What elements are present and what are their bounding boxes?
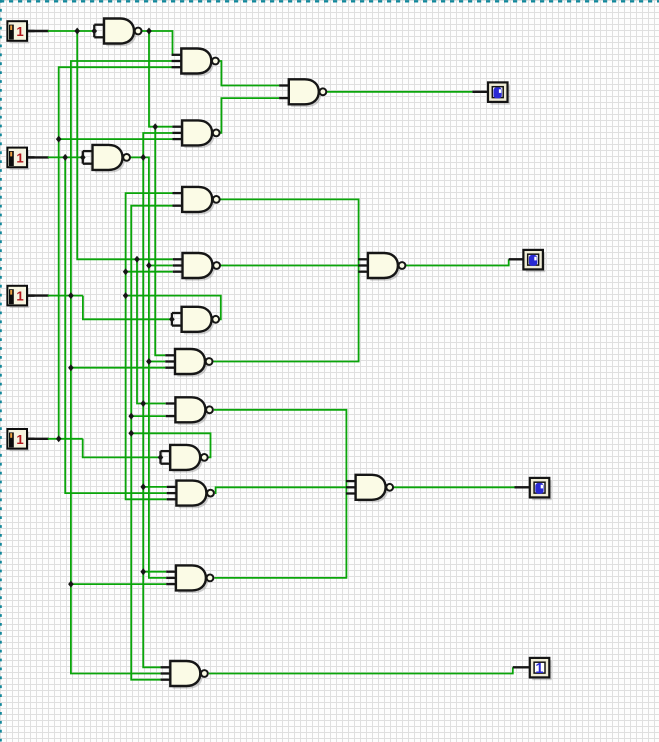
junction U9 rail / U7 input C	[123, 268, 129, 275]
wire U14 output to output pin O3	[394, 486, 530, 488]
wire I4 rail branch to U4 input C	[59, 138, 173, 140]
junction U1 output / rail to U4	[146, 28, 152, 35]
wire I3 to U9 input	[83, 296, 172, 320]
wire I3 pin lead	[27, 294, 83, 296]
junction U1 tied inputs	[92, 28, 98, 35]
wire U16 output to output pin O4	[209, 667, 530, 673]
wire I3 rail up to U2 input B	[71, 61, 172, 296]
wire U9 output rail branch to U7 input C	[126, 271, 173, 273]
wire I4 rail up to U2 input C	[59, 67, 172, 439]
wire I3 rail branch to U10 input C	[71, 367, 165, 369]
junction U5 rail / U11 input A	[140, 400, 146, 407]
wire U6 output down to U8 and U10 output up to U8	[214, 199, 359, 361]
input pin I4 (value 1)	[7, 429, 34, 451]
wire I3 rail branch to U15 input C	[71, 583, 166, 585]
wire rail to U15 input A	[143, 571, 166, 573]
wire U12 output loop up	[131, 433, 210, 457]
NAND gate U11 (2-input)	[166, 397, 213, 425]
input pin I3 (value 1)	[7, 286, 34, 308]
wire U12 output rail up to U6 input B	[131, 206, 172, 434]
junction U12 output loop / rail	[128, 430, 134, 437]
wire I2 to gate U5 input	[27, 156, 83, 158]
junction U5 rail / U7 input B	[146, 262, 152, 269]
NAND gate U14 (3-input)	[346, 475, 393, 503]
junction I3 rail / U10 input C	[68, 364, 74, 371]
NAND gate U10 (3-input)	[165, 349, 212, 377]
NAND gate U7 (3-input)	[173, 253, 220, 281]
wire I4 to U12 input	[27, 439, 161, 458]
wire rail junction to U11 input A	[137, 259, 166, 403]
svg-text:1: 1	[16, 432, 23, 447]
wire rail to U13 input A	[143, 486, 167, 488]
wire U1 output to U2 input A	[142, 31, 174, 55]
input pin I2 (value 1)	[7, 148, 34, 170]
wire U12 output rail branch to U11 input B	[131, 415, 166, 417]
junction I2 wire / rail to U13	[62, 154, 68, 161]
NAND gate U4 (3-input)	[172, 120, 219, 148]
wire U4 output to U3 input B	[220, 98, 279, 133]
junction U5 output / rail down	[140, 154, 146, 161]
junction I1 wire / rail to U7	[74, 28, 80, 35]
output pin O4 (value 1)	[530, 658, 552, 680]
wire I1 rail down to U7 input A	[77, 31, 173, 259]
NAND gate U2 (3-input)	[172, 49, 219, 77]
junction I4 rail / U4 input C	[56, 136, 62, 143]
junction U5 rail / U10 input B	[146, 358, 152, 365]
junction I1 rail / rail to U11	[134, 256, 140, 263]
junction U5 rail / U15 input A	[140, 568, 146, 575]
wire U9 output loop up	[126, 296, 221, 320]
NAND gate U16 (3-input)	[161, 661, 208, 689]
wire U5 output rail down to U16 input A	[143, 157, 160, 667]
NAND gate U12 (inverter, I4)	[161, 445, 208, 473]
junction I3 wire / rail up	[68, 292, 74, 299]
junction I4 wire / rail up	[56, 435, 62, 442]
output pin O2 (value 0)	[523, 250, 545, 272]
NAND gate U8 (3-input)	[358, 253, 405, 281]
wire U8 output to output pin O2	[406, 259, 523, 265]
junction I3 rail / U15 input C	[68, 581, 74, 588]
wire I2 rail down to U13 input B	[65, 157, 167, 493]
NAND gate U5 (inverter, I2)	[83, 145, 130, 173]
NAND gate U1 (inverter, I1)	[94, 19, 141, 47]
svg-text:1: 1	[16, 24, 23, 39]
wire U12 output rail down to U16 input C	[131, 433, 160, 679]
wire U1 output rail down to U10 input A	[155, 127, 165, 356]
wire I1 to gate U1 input	[27, 30, 94, 32]
svg-text:1: 1	[535, 661, 543, 677]
wire U9 output rail down to U13 input C	[126, 296, 167, 500]
junction U9 output / rail	[123, 292, 129, 299]
svg-text:1: 1	[16, 289, 23, 304]
wire U7 output to U8 input B	[221, 265, 359, 267]
junction U4 input A / rail to U10	[152, 123, 158, 130]
input pin I1 (value 1)	[7, 21, 34, 43]
output pin O1 (value 0)	[488, 82, 510, 104]
NAND gate U3 (2-input)	[279, 79, 326, 107]
wire U9 output rail up to U6 input A	[126, 193, 173, 296]
wire U11 output down to U14 and U15 output up to U14	[214, 410, 347, 578]
wire rail to U10 input B	[149, 361, 165, 363]
wire U13 output to U14 input B	[215, 487, 346, 493]
wire U5 output branch rail down to U15 input B	[143, 157, 166, 578]
wire rail to U7 input B	[149, 265, 173, 267]
output pin O3 (value 0)	[530, 478, 552, 500]
wire U1 output rail to U4 input A	[149, 31, 172, 127]
wire U3 output to output pin O1	[327, 91, 488, 93]
junction U12 tied inputs	[158, 454, 164, 461]
junction U5 rail / U13 input A	[140, 483, 146, 490]
NAND gate U13 (3-input)	[167, 481, 214, 509]
junction U12 rail / U11 input B	[128, 413, 134, 420]
NAND gate U15 (3-input)	[166, 565, 213, 593]
NAND gate U6 (2-input)	[173, 187, 220, 215]
wire U2 output to U3 input A	[219, 61, 279, 86]
wire U5 output rail up to U4 input B	[143, 133, 172, 157]
junction U9 tied inputs	[169, 316, 175, 323]
wire U5 output to U4 input B	[131, 156, 144, 158]
NAND gate U9 (inverter, I3)	[172, 307, 219, 335]
wire I3 rail down to U16 input B	[71, 296, 161, 674]
junction U5 tied inputs	[80, 154, 86, 161]
svg-text:1: 1	[16, 150, 23, 165]
